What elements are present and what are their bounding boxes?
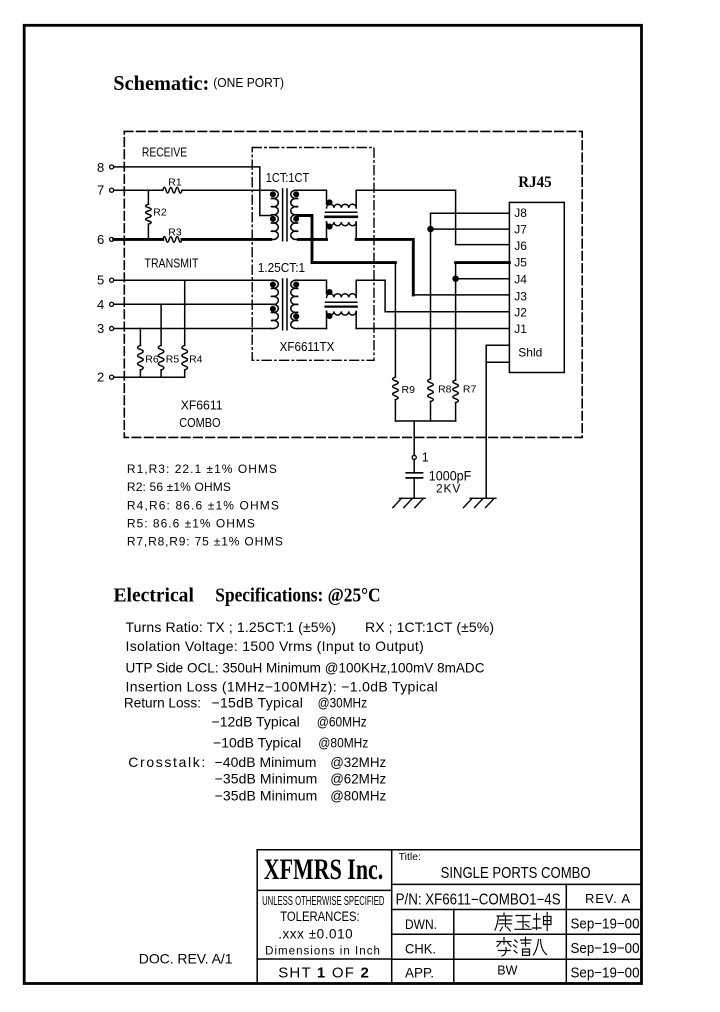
choke CH1 core lower line (326, 216, 357, 219)
svg-text:DWN.: DWN. (405, 916, 437, 932)
svg-text:P/N: XF6611−COMBO1−4S: P/N: XF6611−COMBO1−4S (396, 892, 561, 909)
signature CHK character 3 (534, 940, 547, 956)
pin 3 terminal circle (110, 326, 114, 330)
wire R6 top lead (139, 329, 141, 346)
svg-text:CHK.: CHK. (405, 940, 436, 956)
title block column divider after label column (453, 910, 455, 984)
wire R4 top lead (184, 280, 186, 345)
wire pin7 to R1 (114, 189, 163, 191)
svg-text:Sep−19−00: Sep−19−00 (571, 915, 640, 932)
title block row divider under P/N row (392, 909, 642, 911)
CH2 bottom left lead (326, 311, 328, 328)
svg-text:R4: R4 (189, 353, 203, 365)
T1 phase dot secondary top (294, 192, 299, 197)
svg-text:APP.: APP. (405, 965, 434, 981)
svg-text:@32MHz: @32MHz (330, 754, 386, 770)
svg-text:@30MHz: @30MHz (318, 694, 367, 710)
svg-text:Schematic:: Schematic: (113, 71, 209, 95)
svg-text:−10dB Typical: −10dB Typical (213, 734, 301, 750)
wire J7 row (431, 228, 510, 230)
CH2 top winding right lead (355, 280, 357, 297)
svg-text:XFMRS Inc.: XFMRS Inc. (264, 853, 384, 886)
CH1 phase dot bottom (327, 224, 332, 229)
svg-text:J5: J5 (514, 256, 527, 270)
wire J5 corner down to R7 (455, 263, 457, 380)
resistor R5 (158, 345, 164, 369)
svg-text:BW: BW (497, 964, 517, 978)
choke CH1 top winding (327, 204, 357, 208)
svg-text:UNLESS OTHERWISE SPECIFIED: UNLESS OTHERWISE SPECIFIED (262, 893, 384, 908)
wire R1 to T1 primary top (182, 189, 271, 191)
svg-text:Title:: Title: (399, 851, 421, 863)
wire corner to J3 (413, 294, 509, 296)
wire R7 bottom lead (455, 403, 457, 421)
T2 phase dot secondary lower (294, 314, 299, 319)
wire pin2 bus (114, 376, 185, 378)
title block row divider under CHK row (392, 958, 642, 960)
resistor R3 (163, 237, 182, 243)
RJ45 connector box (509, 202, 564, 372)
svg-text:.xxx ±0.010: .xxx ±0.010 (278, 926, 353, 941)
wire R9 vertical (394, 263, 396, 378)
resistor R2 (146, 204, 152, 224)
wire J5 row (bold) (456, 261, 510, 264)
transformer T2 secondary winding (291, 280, 299, 329)
title block column divider before date column (565, 884, 567, 983)
transformer T2 primary winding (271, 280, 279, 329)
T2 phase dot secondary top (294, 282, 299, 287)
pin 5 terminal circle (110, 278, 114, 282)
svg-text:4: 4 (97, 297, 104, 312)
svg-text:R2: 56 ±1% OHMS: R2: 56 ±1% OHMS (127, 480, 231, 494)
svg-text:1: 1 (422, 451, 429, 465)
pin 4 terminal circle (110, 302, 114, 306)
svg-text:J6: J6 (514, 239, 527, 253)
svg-text:R5: R5 (166, 353, 180, 365)
svg-text:6: 6 (97, 232, 104, 247)
choke CH1 bottom winding (327, 222, 357, 226)
ground symbol under Shld (464, 498, 496, 507)
junction dot J4 tap (453, 276, 458, 281)
CH1 top winding right lead (355, 190, 357, 208)
T1 phase dot primary lower (271, 217, 276, 222)
svg-text:Crosstalk:: Crosstalk: (128, 754, 205, 770)
wire pin3 to T2 primary bottom (114, 328, 271, 330)
choke CH2 bottom winding (327, 311, 357, 315)
node 1 circle (412, 455, 416, 459)
signature DWN character 3 (533, 913, 552, 931)
wire bus to node 1 (413, 421, 415, 455)
signature DWN character 2 (515, 916, 531, 930)
svg-text:RX ; 1CT:1CT (±5%): RX ; 1CT:1CT (±5%) (365, 619, 494, 635)
svg-text:Sep−19−00: Sep−19−00 (571, 940, 640, 957)
wire R8 bottom lead (430, 402, 432, 422)
T1 phase dot primary top (271, 192, 276, 197)
svg-text:UTP Side OCL: 350uH Minimum @1: UTP Side OCL: 350uH Minimum @100KHz,100m… (126, 660, 485, 676)
svg-text:@80MHz: @80MHz (330, 788, 386, 804)
CH1 bottom left lead (326, 222, 328, 239)
svg-text:REV. A: REV. A (585, 891, 630, 906)
svg-text:Turns Ratio: TX ; 1.25CT:1 (±5: Turns Ratio: TX ; 1.25CT:1 (±5%) (126, 619, 337, 635)
T1 phase dot secondary lower (294, 217, 299, 222)
svg-text:7: 7 (97, 183, 104, 198)
svg-text:@60MHz: @60MHz (317, 714, 367, 730)
svg-text:5: 5 (97, 273, 104, 288)
transformer T1 secondary winding (291, 190, 299, 239)
title block row divider under XFMRS cell (257, 889, 392, 891)
svg-text:@62MHz: @62MHz (330, 770, 386, 786)
dash-dot box XF6611TX (252, 148, 374, 361)
svg-text:R2: R2 (153, 206, 167, 218)
svg-text:SHT 1 OF 2: SHT 1 OF 2 (278, 964, 369, 981)
svg-text:@80MHz: @80MHz (318, 734, 368, 750)
signature CHK character 2 (514, 937, 532, 955)
CH2 phase dot top (327, 290, 332, 295)
svg-text:R1,R3: 22.1 ±1% OHMS: R1,R3: 22.1 ±1% OHMS (127, 462, 277, 476)
svg-text:SINGLE PORTS COMBO: SINGLE PORTS COMBO (441, 865, 591, 882)
transformer T1 core (283, 189, 287, 241)
signature DWN character 1 (495, 913, 512, 931)
pin 6 terminal circle (110, 237, 114, 241)
svg-text:COMBO: COMBO (179, 416, 221, 430)
resistor R6 (138, 345, 144, 369)
wire R5 top lead (160, 304, 162, 345)
wire CH2 top to J2 (356, 280, 509, 312)
signature CHK character 1 (497, 938, 511, 957)
wire Shld to ground (485, 362, 487, 498)
wire T1 secondary top to choke CH1 (298, 190, 326, 204)
choke CH2 core upper line (326, 301, 357, 303)
title block outer left edge (256, 850, 258, 984)
svg-text:Insertion Loss (1MHz−100MHz):: Insertion Loss (1MHz−100MHz): −1.0dB Typ… (126, 678, 438, 694)
wire pin4 to T2 primary center tap (114, 303, 271, 305)
svg-text:R4,R6: 86.6 ±1% OHMS: R4,R6: 86.6 ±1% OHMS (127, 498, 279, 512)
resistor R7 (453, 380, 459, 403)
svg-text:R5: 86.6 ±1% OHMS: R5: 86.6 ±1% OHMS (127, 516, 255, 530)
svg-text:1CT:1CT: 1CT:1CT (266, 171, 310, 185)
svg-text:J8: J8 (514, 206, 527, 220)
ground symbol under capacitor (393, 498, 425, 507)
choke CH2 core lower line (326, 306, 357, 308)
wire CH1 bottom to J3 corner (bold) (356, 239, 413, 295)
resistor R8 (428, 379, 434, 402)
svg-text:RECEIVE: RECEIVE (142, 145, 187, 159)
svg-text:−35dB Minimum: −35dB Minimum (215, 788, 318, 804)
svg-text:J1: J1 (514, 322, 527, 336)
capacitor bus bar (395, 420, 455, 422)
wire R6 bottom lead (139, 370, 141, 377)
wire pin5 to T2 primary top (114, 279, 271, 281)
wire T2 secondary bottom to CH2 (298, 328, 326, 330)
svg-text:Sep−19−00: Sep−19−00 (571, 964, 640, 981)
Shld stub (486, 345, 509, 362)
wire J8 row (431, 213, 510, 379)
svg-text:XF6611TX: XF6611TX (280, 340, 335, 354)
svg-text:3: 3 (97, 321, 104, 336)
CH1 phase dot top (327, 200, 332, 205)
pin 7 terminal circle (110, 188, 114, 192)
svg-text:Electrical: Electrical (114, 584, 195, 606)
svg-text:J4: J4 (514, 272, 527, 286)
wire pin8 to T1 primary center tap (114, 167, 271, 216)
T2 phase dot primary top (271, 282, 276, 287)
junction dot J7 tap (428, 227, 433, 232)
dashed module box XF6611 COMBO (124, 131, 582, 437)
svg-text:−15dB Typical: −15dB Typical (212, 694, 303, 710)
title block row divider under Title row (392, 883, 642, 885)
wire R9 bottom lead (394, 400, 396, 421)
svg-text:R8: R8 (438, 383, 452, 395)
svg-text:−12dB Typical: −12dB Typical (212, 714, 300, 730)
svg-text:R7: R7 (463, 383, 477, 395)
svg-text:TRANSMIT: TRANSMIT (145, 257, 199, 271)
choke CH2 top winding (327, 294, 357, 298)
svg-text:(ONE PORT): (ONE PORT) (213, 75, 284, 90)
wire R2 bottom stub (147, 224, 149, 239)
svg-text:8: 8 (97, 160, 104, 175)
T2 phase dot primary lower (271, 307, 276, 312)
svg-text:R1: R1 (168, 176, 182, 188)
CH2 phase dot bottom (327, 314, 332, 319)
wire CH1 top to J6 (356, 190, 509, 244)
svg-text:Shld: Shld (518, 346, 542, 360)
CH2 bottom right lead (355, 311, 357, 328)
resistor R9 (393, 377, 399, 400)
resistor R4 (182, 345, 188, 369)
wire R5 bottom lead (160, 370, 162, 377)
wire T2 secondary top to choke CH2 (298, 280, 326, 293)
svg-text:J3: J3 (514, 289, 527, 303)
svg-text:Specifications: @25°C: Specifications: @25°C (215, 584, 380, 606)
wire T1 secondary CT (bold) to R9 corner (298, 216, 395, 263)
svg-text:R3: R3 (168, 226, 182, 238)
capacitor C1 plates (406, 473, 422, 478)
title block column divider XFMRS/Title (391, 850, 393, 984)
svg-text:Isolation Voltage: 1500 Vrms (: Isolation Voltage: 1500 Vrms (Input to O… (126, 638, 424, 654)
svg-text:R9: R9 (402, 384, 416, 396)
wire R2 top stub (147, 190, 149, 204)
wire R3 to T1 primary bottom (bold) (182, 238, 271, 241)
svg-text:−35dB Minimum: −35dB Minimum (215, 770, 318, 786)
svg-text:R7,R8,R9: 75 ±1% OHMS: R7,R8,R9: 75 ±1% OHMS (127, 535, 283, 549)
resistor R1 (163, 187, 182, 193)
svg-text:XF6611: XF6611 (181, 399, 223, 413)
pin 8 terminal circle (110, 165, 114, 169)
wire CH2 bottom to J1 (356, 328, 509, 330)
svg-text:2KV: 2KV (436, 481, 460, 495)
title block outer top edge (257, 849, 641, 851)
wire J4 row (456, 278, 510, 280)
svg-text:TOLERANCES:: TOLERANCES: (280, 909, 360, 924)
svg-text:RJ45: RJ45 (518, 174, 552, 191)
choke CH1 core upper line (326, 211, 357, 213)
svg-text:R6: R6 (145, 353, 159, 365)
transformer T1 primary winding (271, 190, 279, 239)
svg-text:DOC. REV. A/1: DOC. REV. A/1 (139, 951, 233, 967)
svg-text:2: 2 (97, 370, 104, 385)
svg-text:Dimensions in Inch: Dimensions in Inch (265, 945, 380, 957)
svg-text:1.25CT:1: 1.25CT:1 (258, 261, 305, 275)
wire R4 bottom lead (184, 370, 186, 377)
title block row divider under DWN row (392, 933, 642, 935)
wire pin6 to R3 (bold) (114, 238, 163, 241)
wire capacitor to ground (413, 478, 415, 498)
CH1 bottom right lead (355, 222, 357, 239)
svg-text:−40dB Minimum: −40dB Minimum (215, 754, 317, 770)
svg-text:J2: J2 (514, 305, 527, 319)
svg-text:Return Loss:: Return Loss: (124, 694, 201, 710)
title block row divider above SHT cell (257, 958, 392, 960)
wire T1 secondary bottom to CH1 (bold) (298, 238, 326, 241)
pin 2 terminal circle (110, 375, 114, 379)
transformer T2 core (283, 279, 287, 330)
wire node to capacitor C1 (413, 459, 415, 472)
svg-text:J7: J7 (514, 222, 527, 236)
